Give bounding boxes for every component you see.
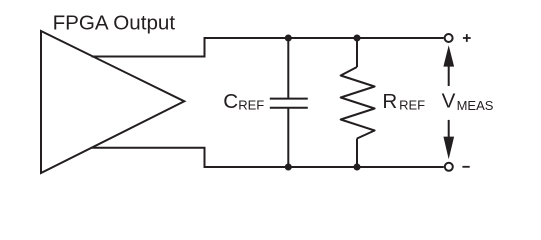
V_MEAS up arrow (443, 45, 454, 86)
svg-text:R: R (382, 90, 397, 113)
buffer U1 (FPGA output driver triangle) (41, 31, 184, 173)
svg-text:V: V (442, 90, 456, 113)
svg-text:FPGA Output: FPGA Output (53, 11, 176, 34)
junction (R_REF top) (354, 35, 361, 42)
svg-text:C: C (223, 90, 238, 113)
svg-text:MEAS: MEAS (457, 98, 494, 113)
label R_REF (382, 90, 425, 113)
junction (C_REF bottom) (285, 164, 292, 171)
resistor R_REF (341, 38, 375, 167)
label V_MEAS (442, 90, 494, 114)
wire (buffer bottom output to bottom rail, step down) (92, 148, 444, 167)
minus sign (462, 166, 469, 168)
svg-text:REF: REF (399, 98, 425, 113)
svg-text:REF: REF (238, 98, 264, 113)
junction (R_REF bottom) (354, 164, 361, 171)
capacitor C_REF (270, 38, 308, 167)
V_MEAS down arrow (443, 120, 454, 159)
terminal (+) open circle (445, 34, 453, 42)
junction (C_REF top) (285, 35, 292, 42)
terminal (-) open circle (445, 163, 453, 171)
label C_REF (223, 90, 264, 113)
plus sign (463, 34, 471, 42)
wire (buffer top output to top rail, step up) (92, 38, 444, 57)
